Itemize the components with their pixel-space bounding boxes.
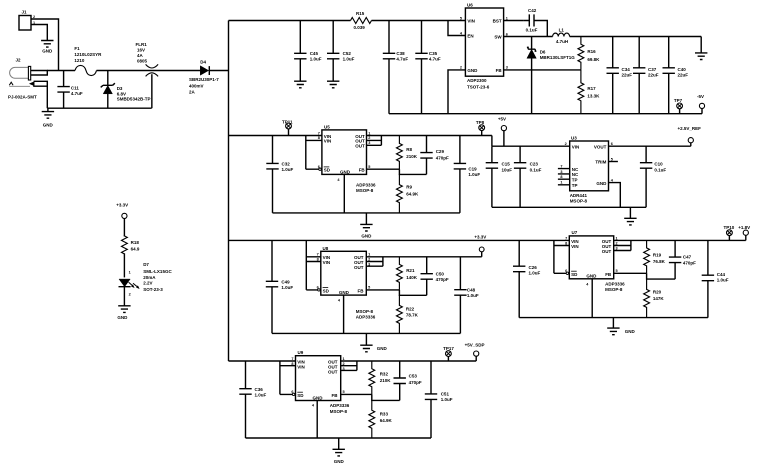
R32 labels [380, 371, 392, 383]
svg-text:R32: R32 [380, 371, 389, 376]
svg-text:ADP2300: ADP2300 [467, 78, 487, 83]
svg-text:3: 3 [368, 141, 370, 145]
svg-text:4.7uF: 4.7uF [396, 57, 408, 62]
svg-text:7: 7 [565, 237, 567, 241]
+3.3V label [474, 235, 486, 240]
capacitor C49 [266, 240, 278, 333]
svg-text:SMBD5342B-TP: SMBD5342B-TP [117, 97, 151, 102]
D3 labels [117, 86, 151, 102]
C32 labels [282, 162, 294, 173]
svg-text:3: 3 [616, 246, 618, 250]
U3 part labels [570, 193, 588, 204]
R17 labels [587, 86, 600, 98]
wire U3 GND pin [609, 183, 621, 208]
R19 labels [653, 252, 666, 264]
svg-text:MSOP-8: MSOP-8 [356, 309, 374, 314]
wire U8 ground rail [272, 332, 460, 334]
wire U8 FB line [366, 289, 399, 291]
svg-text:MSOP-8: MSOP-8 [605, 287, 623, 292]
C50 labels [436, 272, 449, 283]
svg-text:ADR441: ADR441 [570, 193, 588, 198]
svg-text:C15: C15 [502, 162, 511, 167]
wire U6 FB line [504, 69, 581, 71]
resistor R32 [369, 361, 375, 394]
svg-text:SML-LX15GC: SML-LX15GC [143, 269, 172, 274]
R33 labels [380, 411, 393, 423]
wire U5 output rail (+5V) [367, 135, 492, 137]
R16 labels [587, 49, 600, 62]
wire U9 output rail (+5V_SDP) [341, 360, 477, 362]
U3 pin numbers [560, 142, 613, 185]
wire U9 OUT tie [341, 361, 357, 370]
D7 labels [143, 262, 172, 292]
resistor R22 [397, 295, 403, 333]
svg-text:1210L02SYR: 1210L02SYR [74, 52, 102, 57]
capacitor C53 [394, 361, 406, 400]
wire U9 input rail [229, 360, 296, 362]
resistor R15 [351, 18, 372, 24]
svg-text:C23: C23 [530, 162, 539, 167]
R21 labels [406, 268, 418, 280]
svg-text:C53: C53 [409, 374, 418, 379]
svg-text:R33: R33 [380, 411, 389, 416]
svg-text:VIN: VIN [297, 365, 305, 370]
test point TP10 [727, 230, 733, 241]
test point TP17 [446, 351, 452, 361]
ground (J1) [41, 41, 53, 54]
svg-text:1.0uF: 1.0uF [529, 271, 541, 276]
svg-text:VIN: VIN [324, 139, 332, 144]
capacitor C37 [633, 37, 645, 114]
svg-text:SD: SD [571, 272, 578, 277]
resistor R9 [397, 174, 403, 213]
svg-text:VIN: VIN [572, 144, 580, 149]
svg-text:EN: EN [467, 33, 473, 38]
R18 labels [131, 240, 140, 251]
capacitor C38 [383, 21, 395, 114]
svg-text:1: 1 [368, 253, 370, 257]
svg-text:C51: C51 [441, 391, 450, 396]
svg-text:C48: C48 [467, 288, 476, 293]
svg-text:210K: 210K [406, 154, 418, 159]
TP8 label [476, 120, 485, 125]
svg-text:J2: J2 [16, 58, 22, 63]
op-amp U9 ADP3336 body [296, 350, 341, 401]
svg-text:R20: R20 [653, 290, 662, 295]
svg-text:R16: R16 [587, 49, 596, 54]
C45 labels [310, 51, 322, 61]
D4 labels [189, 59, 219, 94]
svg-text:C49: C49 [281, 280, 290, 285]
svg-text:R18: R18 [131, 240, 140, 245]
svg-text:R17: R17 [587, 86, 596, 91]
svg-text:D4: D4 [200, 59, 206, 64]
svg-text:4.7uF: 4.7uF [429, 57, 441, 62]
D6 labels [540, 50, 576, 60]
svg-text:64.9K: 64.9K [406, 191, 419, 196]
U9 part labels [330, 403, 350, 414]
svg-text:6: 6 [318, 165, 320, 169]
wire input rail (jack to fuse F1) [47, 70, 75, 72]
connector J1 [19, 10, 31, 31]
svg-text:1: 1 [506, 16, 508, 20]
C10 labels [654, 162, 666, 173]
svg-text:C42: C42 [528, 8, 537, 13]
wire U7 FB line [614, 272, 647, 274]
resistor R33 [369, 400, 375, 438]
capacitor C52 [327, 21, 339, 82]
wire U9 GND pin to ground rail [316, 401, 318, 439]
R15 labels [354, 11, 366, 30]
filter FLR1 [146, 64, 159, 108]
resistor R21 [397, 257, 403, 290]
capacitor C19 [454, 136, 466, 213]
wire top rail (bus to R15) [229, 20, 351, 22]
wire R19/R20 junction link [647, 273, 676, 279]
svg-text:4A: 4A [137, 53, 144, 58]
wire U8 output rail (+3.3V) [366, 256, 481, 258]
svg-text:2: 2 [565, 142, 567, 146]
svg-text:22uF: 22uF [648, 73, 659, 78]
C26 labels [529, 265, 541, 276]
svg-text:GND: GND [313, 395, 324, 400]
svg-text:MSOP-8: MSOP-8 [330, 409, 348, 414]
svg-text:MSOP-8: MSOP-8 [356, 188, 374, 193]
op-amp U8 ADP3336 body [321, 246, 367, 295]
wire U7 ground rail [519, 317, 708, 319]
svg-text:GND: GND [377, 346, 388, 351]
svg-text:SBR2U30P1-7: SBR2U30P1-7 [189, 77, 219, 82]
TP7 label [674, 98, 683, 103]
svg-text:C47: C47 [683, 255, 692, 260]
ground (LED) [117, 306, 130, 320]
svg-text:7: 7 [317, 253, 319, 257]
svg-text:SD: SD [323, 288, 330, 293]
TP10 label [724, 225, 735, 230]
power flag +2.5V_REF [688, 138, 693, 147]
svg-text:D3: D3 [117, 86, 123, 91]
svg-text:R21: R21 [406, 268, 415, 273]
svg-text:OUT: OUT [328, 369, 338, 374]
C48 labels [467, 288, 479, 299]
resistor R16 [578, 37, 584, 70]
U3 pin names [572, 144, 607, 188]
wire R8/R9 junction link [399, 169, 426, 174]
svg-text:GND: GND [586, 274, 597, 279]
svg-text:FB: FB [605, 272, 612, 277]
U3 TRIM stub [609, 161, 618, 163]
wire U7 VIN/SD tie [554, 240, 569, 274]
F1 labels [74, 46, 102, 63]
svg-text:1: 1 [368, 131, 370, 135]
LED D7 [119, 279, 140, 306]
C38 labels [396, 51, 408, 61]
svg-text:U9: U9 [298, 350, 304, 355]
wire R18 to D7 [123, 253, 125, 277]
svg-text:GND: GND [117, 315, 128, 320]
svg-text:C40: C40 [678, 67, 687, 72]
R20 labels [653, 290, 665, 302]
L1 labels [556, 27, 568, 44]
svg-text:3: 3 [506, 66, 508, 70]
wire U5 input rail [229, 135, 322, 137]
svg-text:C37: C37 [648, 67, 657, 72]
power flag -5V [699, 103, 704, 113]
U9 pin names [297, 360, 338, 401]
svg-text:F1: F1 [74, 46, 80, 51]
svg-text:8: 8 [318, 136, 320, 140]
capacitor C42 [523, 14, 547, 36]
capacitor C29 [420, 136, 432, 175]
wire U8 GND pin to ground rail [343, 295, 345, 333]
svg-text:C50: C50 [436, 272, 445, 277]
capacitor C50 [421, 257, 433, 296]
power flag +5V_SDP [474, 351, 479, 361]
wire U6 EN tie [448, 21, 465, 36]
svg-text:U7: U7 [572, 230, 578, 235]
ground (C45) [294, 81, 306, 88]
ground (SW output rail) [695, 37, 707, 60]
power flag +1.8V [743, 230, 748, 240]
U6 pin numbers [460, 16, 508, 69]
J1 pin 1 label [33, 21, 35, 25]
svg-text:16V: 16V [137, 48, 145, 53]
power flag +5V [501, 126, 506, 147]
svg-text:0.039: 0.039 [354, 25, 366, 30]
svg-text:69.8K: 69.8K [587, 57, 600, 62]
svg-text:C10: C10 [654, 162, 663, 167]
wire U3 VIN rail [492, 145, 570, 147]
wire R32/R33 junction link [372, 394, 400, 400]
svg-text:4.7uH: 4.7uH [556, 39, 568, 44]
wire J1 pin2 to input rail [31, 19, 59, 71]
svg-text:1.0uF: 1.0uF [717, 278, 729, 283]
svg-text:D7: D7 [143, 262, 149, 267]
svg-text:147K: 147K [653, 296, 665, 301]
resistor R19 [644, 240, 650, 273]
svg-text:SD: SD [324, 168, 331, 173]
C42 labels [526, 8, 538, 33]
svg-text:ADP3336: ADP3336 [356, 315, 376, 320]
svg-text:FB: FB [332, 393, 339, 398]
U9 pin4 number [312, 404, 315, 408]
svg-text:TSOT-23-6: TSOT-23-6 [467, 85, 490, 90]
svg-text:ADP3336: ADP3336 [356, 182, 376, 187]
svg-text:GND: GND [42, 49, 53, 54]
svg-text:+5V: +5V [498, 117, 506, 122]
wire U3 ground rail [492, 206, 646, 208]
svg-text:5: 5 [368, 165, 370, 169]
U8 pin names [323, 255, 365, 295]
svg-text:6: 6 [317, 286, 319, 290]
capacitor C48 [454, 257, 466, 334]
-5V label [697, 94, 704, 99]
C51 labels [441, 391, 453, 402]
+5V_SDP label [465, 342, 485, 347]
wire U6 SW to L1 [504, 36, 553, 38]
U8 part labels [356, 309, 376, 320]
C29 labels [436, 149, 449, 160]
svg-text:1.0uF: 1.0uF [310, 57, 322, 62]
svg-text:+5V_SDP: +5V_SDP [465, 342, 485, 347]
wire VIN distribution bus [228, 21, 230, 362]
svg-text:TP8: TP8 [476, 120, 485, 125]
svg-text:MBR130LSFT1G: MBR130LSFT1G [540, 55, 576, 60]
wire U8 VIN/SD tie [306, 240, 321, 291]
ground (U3 section) [624, 207, 636, 225]
svg-text:GND: GND [467, 68, 478, 73]
U3 NC/TP stub pins [558, 169, 570, 185]
svg-text:ADP3336: ADP3336 [330, 403, 350, 408]
power flag +3.3V [479, 247, 484, 257]
zener diode D3 [101, 71, 115, 109]
svg-text:400mV: 400mV [189, 83, 204, 88]
svg-text:22uF: 22uF [622, 73, 633, 78]
wire U7 output rail (+1.8V) [614, 239, 746, 241]
svg-text:FB: FB [359, 168, 366, 173]
svg-text:NC: NC [572, 167, 579, 172]
+1.8V label [738, 225, 750, 230]
svg-text:TP: TP [572, 178, 578, 183]
C53 labels [409, 374, 422, 385]
ground (U5 section) [360, 213, 372, 238]
svg-text:TP11: TP11 [282, 119, 293, 124]
U5 pin names [324, 134, 366, 175]
capacitor C40 [663, 37, 675, 114]
C37 labels [648, 67, 659, 78]
svg-text:R9: R9 [406, 184, 412, 189]
U7 pin4 number [586, 282, 589, 286]
svg-text:OUT: OUT [354, 265, 364, 270]
svg-text:VOUT: VOUT [594, 144, 607, 149]
svg-text:SW: SW [494, 34, 502, 39]
svg-text:U5: U5 [324, 124, 330, 129]
U6 part labels [467, 78, 490, 90]
op-amp U3 ADR441 body [570, 136, 609, 191]
svg-text:5: 5 [343, 390, 345, 394]
svg-text:1.0uF: 1.0uF [282, 167, 294, 172]
svg-text:GND: GND [625, 329, 636, 334]
svg-text:2: 2 [460, 66, 462, 70]
capacitor C36 [239, 361, 251, 438]
inductor L1 [553, 33, 570, 36]
resistor R18 [122, 236, 128, 254]
wire U3 VOUT rail [609, 145, 691, 147]
svg-text:TP10: TP10 [724, 225, 735, 230]
+5V label [498, 117, 506, 122]
svg-text:C26: C26 [529, 265, 538, 270]
svg-text:22uF: 22uF [678, 73, 689, 78]
wire U6 GND pin to -5V rail [448, 70, 465, 114]
wire +5V rail to U8/U7 [229, 239, 570, 241]
svg-text:5: 5 [460, 16, 462, 20]
svg-text:NC: NC [572, 172, 579, 177]
svg-text:6: 6 [611, 142, 613, 146]
C40 labels [678, 67, 689, 78]
svg-text:SOT-23-3: SOT-23-3 [143, 287, 163, 292]
capacitor C35 [415, 21, 427, 114]
wire -5V rail [389, 113, 702, 115]
C44 labels [717, 272, 729, 283]
svg-text:VIN: VIN [467, 18, 475, 23]
svg-text:BST: BST [493, 18, 502, 23]
wire U7 OUT tie [614, 240, 631, 250]
svg-text:6: 6 [506, 32, 508, 36]
+3.3V label (LED) [116, 202, 128, 207]
svg-text:20mA: 20mA [143, 275, 156, 280]
wire U8 OUT tie [366, 257, 383, 266]
wire U5 FB line [367, 168, 400, 170]
svg-text:+1.8V: +1.8V [738, 225, 750, 230]
wire U6 BST to C42 [504, 20, 523, 22]
svg-text:+3.3V: +3.3V [474, 235, 486, 240]
svg-text:OUT: OUT [602, 249, 612, 254]
capacitor C23 [514, 146, 526, 207]
svg-text:1: 1 [129, 270, 131, 274]
svg-text:PJ-002A-SMT: PJ-002A-SMT [8, 95, 37, 100]
svg-text:R15: R15 [356, 11, 365, 16]
svg-text:1.0uF: 1.0uF [468, 172, 480, 177]
capacitor C34 [607, 37, 619, 114]
svg-text:C35: C35 [429, 51, 438, 56]
svg-text:6: 6 [565, 269, 567, 273]
U8 pin4 number [338, 298, 341, 302]
svg-text:0.1uF: 0.1uF [654, 167, 666, 172]
ground (U9 section) [333, 438, 345, 464]
ground (U7 section) [607, 318, 635, 335]
svg-text:GND: GND [340, 169, 351, 174]
svg-text:210K: 210K [380, 378, 392, 383]
C34 labels [622, 67, 633, 78]
svg-text:7: 7 [318, 131, 320, 135]
svg-text:4.7uF: 4.7uF [71, 91, 83, 96]
svg-text:TP: TP [572, 183, 578, 188]
ground (C52) [327, 81, 339, 88]
connector J2 barrel jack body [10, 58, 31, 81]
svg-text:1.0uF: 1.0uF [343, 57, 355, 62]
capacitor C10 [640, 146, 652, 207]
capacitor C26 [513, 240, 525, 317]
power flag +3.3V (LED) [122, 213, 127, 236]
wire U7 GND pin to ground rail [591, 279, 593, 318]
svg-text:R19: R19 [653, 252, 662, 257]
J2 part label PJ-002A-SMT [8, 95, 37, 100]
svg-text:U6: U6 [467, 3, 473, 8]
svg-text:2A: 2A [189, 90, 196, 95]
svg-text:FB: FB [358, 288, 365, 293]
wire U5 ground rail [273, 212, 460, 214]
svg-text:C38: C38 [396, 51, 405, 56]
fuse F1 [75, 65, 97, 75]
ground rail (input section) [47, 107, 151, 109]
svg-text:C52: C52 [343, 51, 352, 56]
C49 labels [281, 280, 293, 291]
svg-text:0.1uF: 0.1uF [526, 28, 538, 33]
capacitor C15 [486, 146, 498, 207]
U5 pin numbers [318, 131, 371, 169]
wire U5 VIN/SD tie [306, 136, 322, 171]
svg-text:5: 5 [368, 286, 370, 290]
resistor R8 [397, 136, 403, 170]
U6 pin names [467, 18, 502, 72]
C23 labels [530, 162, 542, 173]
test point TP7 [677, 103, 683, 114]
svg-text:GND: GND [43, 123, 54, 128]
diode D4 [200, 66, 228, 75]
ground (U8 section) [360, 333, 387, 351]
op-amp U7 ADP3336 body [569, 230, 613, 279]
svg-text:C19: C19 [468, 166, 477, 171]
